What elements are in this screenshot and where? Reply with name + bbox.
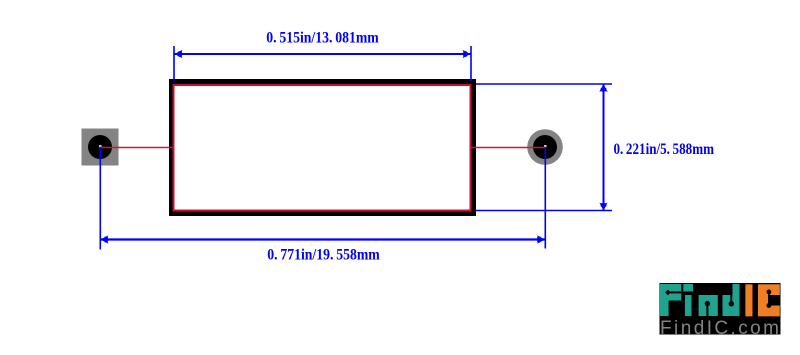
- bottom dimension line: [101, 238, 546, 240]
- top dimension line: [175, 53, 471, 55]
- component body outline (red): [174, 85, 471, 211]
- right dimension extension line top: [476, 83, 612, 85]
- pad 2 round land: [527, 129, 563, 165]
- bottom dimension arrow right: [537, 235, 545, 243]
- right dimension extension line bottom: [476, 210, 612, 212]
- component body outline (black): [172, 82, 474, 214]
- svg-text:0. 515in/13. 081mm: 0. 515in/13. 081mm: [266, 30, 379, 47]
- top dimension extension line right: [470, 46, 472, 81]
- pad 1 origin mark: [99, 145, 102, 148]
- bottom dimension arrow left: [101, 235, 109, 243]
- top dimension arrow left: [175, 50, 183, 58]
- bottom dimension extension line right (from pad 2 center): [544, 147, 546, 249]
- pad 1 hole (black): [88, 135, 112, 159]
- right dimension line: [603, 84, 605, 211]
- pad 2 origin mark: [544, 145, 547, 148]
- lead wire right (red): [471, 147, 545, 149]
- FindIC logo word "Find" (teal blocky letters): [660, 284, 740, 316]
- FindIC logo background: [660, 283, 781, 335]
- svg-text:0. 221in/5. 588mm: 0. 221in/5. 588mm: [614, 141, 715, 158]
- bottom dimension extension line left (from pad 1 center): [99, 147, 101, 250]
- pad 1 square land: [82, 129, 119, 166]
- pad 2 hole (black): [533, 135, 557, 159]
- top dimension arrow right: [463, 50, 471, 58]
- right dimension arrow bottom: [599, 203, 607, 211]
- svg-text:0. 771in/19. 558mm: 0. 771in/19. 558mm: [267, 247, 380, 264]
- right dimension arrow top: [599, 84, 607, 92]
- top dimension extension line left: [173, 46, 175, 81]
- lead wire left (red): [100, 147, 173, 149]
- FindIC logo word "IC" (orange blocky letters): [745, 284, 779, 316]
